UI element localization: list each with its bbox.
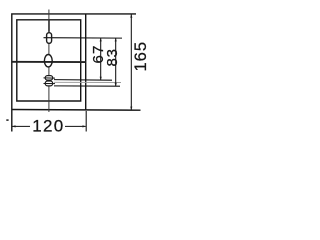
svg-text:165: 165 bbox=[132, 41, 150, 72]
svg-text:120: 120 bbox=[32, 116, 64, 135]
svg-text:83: 83 bbox=[104, 48, 121, 66]
